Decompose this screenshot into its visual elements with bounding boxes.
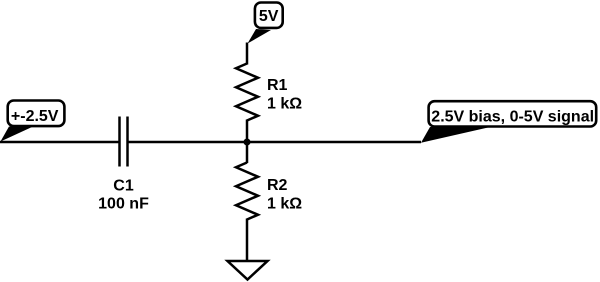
svg-text:1 kΩ: 1 kΩ <box>267 96 302 113</box>
svg-text:R2: R2 <box>267 177 288 194</box>
svg-text:C1: C1 <box>113 177 134 194</box>
svg-text:1 kΩ: 1 kΩ <box>267 196 302 213</box>
annotation flag 2.5V bias, 0-5V signal <box>421 101 596 143</box>
svg-text:+-2.5V: +-2.5V <box>11 108 59 125</box>
power flag 5V <box>248 3 283 44</box>
wire: node to R2 <box>246 142 249 163</box>
annotation flag +-2.5V <box>1 101 65 142</box>
wire: bias net (cap to right end) <box>128 141 422 144</box>
capacitor C1 <box>120 117 128 167</box>
wire: R2 to ground <box>246 219 249 262</box>
svg-text:R1: R1 <box>267 77 288 94</box>
ground <box>228 261 268 280</box>
node junction dot <box>244 139 251 146</box>
resistor R1 <box>236 64 258 121</box>
svg-text:5V: 5V <box>259 8 279 25</box>
wire: R1 to node <box>246 120 249 144</box>
svg-text:100 nF: 100 nF <box>98 195 149 212</box>
wire: 5V to R1 <box>246 43 249 65</box>
wire: input net left segment <box>0 141 120 144</box>
resistor R2 <box>236 163 258 220</box>
svg-text:2.5V bias, 0-5V signal: 2.5V bias, 0-5V signal <box>431 108 594 125</box>
